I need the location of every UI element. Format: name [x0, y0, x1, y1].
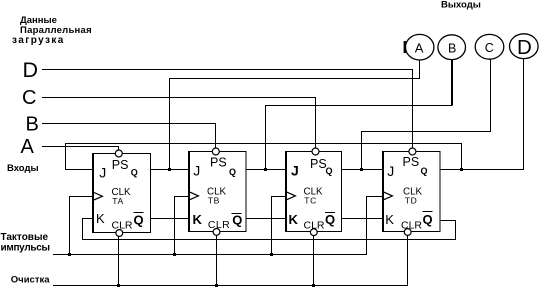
wire output D net: Q4 to terminal D: [440, 59, 524, 170]
junction Q2 tap: [264, 168, 267, 171]
svg-text:PS: PS: [112, 158, 129, 172]
pin Qbar (TA): [134, 213, 144, 228]
svg-text:Q: Q: [232, 212, 242, 227]
svg-text:J: J: [387, 163, 394, 179]
wire clock branch TA: [70, 197, 93, 255]
svg-text:Очистка: Очистка: [11, 275, 50, 286]
clock triangle (TB): [189, 192, 199, 200]
wire A input to PS of TA: [42, 147, 119, 151]
flip-flop TC: [286, 148, 342, 236]
svg-text:TB: TB: [208, 196, 220, 206]
svg-text:импульсы: импульсы: [1, 242, 50, 253]
svg-text:TC: TC: [304, 196, 317, 206]
wire D input to PS of TD: [42, 70, 413, 150]
flip-flop TB: [189, 148, 247, 235]
clock triangle (TD): [383, 192, 393, 200]
clear bubble (TB): [213, 229, 220, 236]
clear bubble (TA): [116, 230, 123, 237]
clock triangle (TC): [286, 192, 296, 200]
svg-text:J: J: [193, 163, 200, 179]
pin Qbar (TC): [325, 212, 335, 227]
wire Q3bar to K4: [341, 218, 383, 220]
svg-text:K: K: [289, 212, 299, 227]
preset bubble (TC): [312, 148, 319, 155]
svg-text:C: C: [485, 41, 494, 55]
wire C input to PS of TC: [42, 98, 316, 150]
svg-text:Q: Q: [325, 212, 335, 227]
junction clock TC: [270, 253, 273, 256]
junction clock TA: [68, 253, 71, 256]
svg-text:B: B: [26, 114, 39, 136]
svg-text:Q: Q: [134, 213, 144, 228]
body TC: [286, 152, 342, 232]
svg-text:A: A: [415, 41, 424, 56]
wire output C net: Q3 tap up and over to terminal C: [362, 59, 491, 169]
wire clock branch TC: [272, 197, 286, 255]
body TA: [93, 154, 151, 233]
wire feedback Q4 to J1: [66, 144, 462, 170]
wire Q2 to J3: [246, 169, 286, 171]
flip-flop TA: [93, 150, 151, 236]
svg-text:K: K: [96, 211, 105, 226]
wire Q2bar to K3: [246, 218, 286, 220]
svg-text:J: J: [99, 165, 106, 181]
label Тактовые импульсы: [1, 232, 50, 253]
wire output A net: Q1 tap up and over to terminal A: [170, 60, 420, 170]
wire clear branch TC: [313, 235, 315, 285]
wire clear branch TA: [118, 236, 120, 285]
pin Qbar (TD): [423, 212, 433, 228]
junction Q1 tap: [168, 168, 171, 171]
wire B input to PS of TB: [42, 124, 216, 150]
wire clock branch TD: [367, 197, 383, 201]
svg-text:A: A: [21, 136, 35, 158]
svg-text:PS: PS: [210, 156, 227, 170]
wire output B net: Q2 tap up and over to terminal B: [266, 60, 453, 170]
svg-text:J: J: [291, 163, 299, 179]
svg-text:Выходы: Выходы: [441, 0, 481, 11]
output terminal C: [475, 34, 504, 59]
clear bubble (TC): [310, 229, 317, 236]
svg-text:TA: TA: [112, 196, 123, 206]
svg-text:Q: Q: [131, 168, 138, 178]
wire clock branch TB: [175, 197, 189, 255]
svg-text:B: B: [448, 41, 456, 55]
svg-text:Входы: Входы: [7, 163, 39, 174]
svg-text:Q: Q: [423, 212, 433, 227]
svg-text:CLR: CLR: [112, 220, 133, 232]
body TB: [189, 152, 247, 232]
svg-text:PS: PS: [403, 155, 420, 169]
wire feedback Q4bar to K1: [83, 219, 456, 240]
svg-text:Q: Q: [326, 166, 333, 176]
svg-text:K: K: [193, 212, 203, 227]
pin Qbar (TB): [232, 212, 243, 227]
svg-text:C: C: [22, 87, 36, 109]
flip-flop TD: [383, 148, 441, 235]
preset bubble (TA): [115, 150, 122, 157]
body TD: [383, 152, 441, 232]
junction clock TB: [173, 253, 176, 256]
output terminal B: [438, 35, 466, 60]
label Данные Параллельная загрузка: [12, 15, 92, 46]
preset bubble (TD): [409, 148, 416, 155]
svg-text:загрузка: загрузка: [12, 35, 65, 46]
svg-text:PS: PS: [310, 157, 327, 171]
wire Q1 to J2: [150, 169, 189, 171]
svg-text:CLR: CLR: [401, 219, 422, 231]
wire Q3 to J4: [341, 169, 383, 171]
wire Q1bar to K2: [150, 218, 189, 220]
wire clear branch TB: [216, 235, 218, 285]
junction Q4 tap: [460, 168, 463, 171]
junction clear TA: [117, 284, 120, 287]
output terminal D: [510, 34, 539, 59]
svg-text:D: D: [23, 58, 39, 82]
svg-text:Q: Q: [421, 166, 428, 176]
svg-text:Тактовые: Тактовые: [1, 232, 49, 243]
preset bubble (TB): [212, 148, 219, 155]
svg-text:K: K: [385, 212, 394, 227]
svg-text:Q: Q: [229, 167, 236, 177]
junction clear TB: [215, 284, 218, 287]
clear bubble (TD): [404, 229, 411, 236]
output terminal A: [404, 34, 434, 60]
svg-text:D: D: [517, 36, 532, 59]
clock triangle (TA): [93, 192, 103, 200]
wire clock line: [53, 200, 367, 254]
junction Q3 tap: [360, 168, 363, 171]
junction clear TC: [312, 284, 315, 287]
svg-text:TD: TD: [405, 196, 418, 206]
wire clear line: [53, 235, 408, 285]
